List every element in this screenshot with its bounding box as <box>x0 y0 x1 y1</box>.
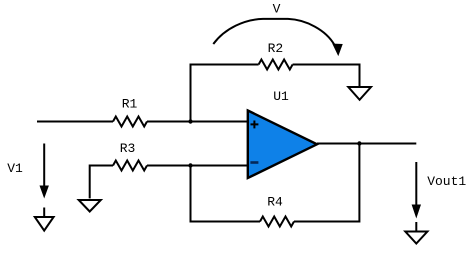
pin + (non-inverting input) <box>251 121 259 129</box>
resistor R4 <box>260 217 294 227</box>
node B junction dot <box>188 163 192 167</box>
wire R1 right segment to op-amp <box>147 121 248 123</box>
ground (top right, R2) <box>348 87 371 100</box>
resistor R2 <box>259 60 293 70</box>
voltage arrow V1 <box>40 144 48 198</box>
op-amp U1 <box>248 111 317 179</box>
node C junction dot <box>357 141 361 145</box>
svg-text:R1: R1 <box>122 97 138 112</box>
svg-text:R3: R3 <box>120 141 136 156</box>
wire R2 top left segment <box>191 64 259 66</box>
svg-text:Vout1: Vout1 <box>427 174 466 189</box>
wire R4 left segment <box>191 221 261 223</box>
ground (below R3 left) <box>79 200 101 212</box>
resistor R3 <box>113 161 147 171</box>
wire R3 left corner and vertical to ground <box>90 166 113 199</box>
wire left vertical from R2 to node A <box>190 64 192 122</box>
wire right vertical from R2 to ground <box>359 64 361 87</box>
voltage arrow Vout1 <box>412 162 420 217</box>
pin - (inverting input) <box>250 161 258 164</box>
ground (below Vout1 arrow) <box>405 222 427 244</box>
wire R2 top right segment <box>293 64 360 66</box>
ground (below V1 arrow) <box>35 208 54 231</box>
svg-text:V1: V1 <box>7 161 23 176</box>
wire R4 right segment <box>294 221 359 223</box>
wire feedback left vertical (node B down to R4) <box>190 166 192 223</box>
voltage arrow V (curved) <box>213 19 342 55</box>
node A junction dot <box>188 119 192 123</box>
svg-text:R2: R2 <box>268 41 284 56</box>
wire op-amp output <box>317 143 416 145</box>
svg-text:R4: R4 <box>267 195 283 210</box>
wire R3 right segment to op-amp <box>147 165 248 167</box>
svg-text:V: V <box>273 2 281 17</box>
wire R1 input left segment <box>37 121 113 123</box>
svg-text:U1: U1 <box>273 89 289 104</box>
resistor R1 <box>113 117 147 127</box>
wire feedback right vertical (R4 up to node C) <box>358 144 360 223</box>
